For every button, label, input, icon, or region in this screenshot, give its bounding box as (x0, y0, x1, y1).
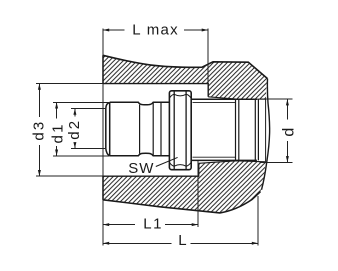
d2 arrows (73, 109, 76, 115)
svg-text:L max: L max (132, 22, 179, 39)
d1 extension lines (53, 102, 110, 156)
L1 arrows (103, 223, 109, 226)
plug body top edge with groove (110, 102, 170, 105)
L dimension line (103, 242, 258, 244)
SW leader line (156, 157, 178, 166)
d3 dimension line (38, 84, 40, 177)
hex corner edges (174, 91, 186, 170)
common extension line at block face (102, 29, 104, 246)
plug nose cap (106, 102, 110, 156)
d dimension line (286, 99, 288, 162)
groove edge left (139, 105, 141, 154)
d3 arrows (38, 84, 41, 90)
thread root lines (193, 102, 236, 157)
block upper section fill (103, 55, 268, 99)
dimension and extension lines (36, 29, 293, 246)
svg-text:SW: SW (128, 160, 154, 177)
block lower outline (103, 161, 266, 213)
L arrows (103, 242, 109, 245)
plug body bottom edge with groove (110, 153, 170, 156)
L1 right extension (197, 161, 199, 228)
groove edge right (152, 102, 154, 156)
svg-text:L: L (178, 232, 186, 249)
d1 dimension line (56, 102, 58, 155)
arrowheads (38, 29, 289, 245)
d1 arrows (55, 102, 58, 108)
d extension lines (260, 99, 293, 162)
d arrows (286, 99, 289, 105)
svg-text:d2: d2 (66, 119, 83, 140)
threaded shank outer lines (191, 99, 257, 160)
L max arrows (103, 29, 109, 32)
block lower section fill (103, 161, 266, 213)
d2 extension lines (71, 109, 106, 149)
L1 dimension line (103, 224, 198, 226)
d3 extension lines (36, 84, 103, 177)
svg-text:L1: L1 (143, 216, 163, 233)
collar edge (160, 102, 162, 156)
thread end rings (236, 99, 239, 160)
d2 dimension line (74, 109, 76, 149)
hex nut outline (169, 91, 191, 170)
svg-text:d: d (281, 128, 298, 137)
shank end face rings (255, 99, 258, 160)
svg-text:d3: d3 (31, 120, 48, 141)
svg-text:d1: d1 (50, 122, 67, 143)
block upper outline (103, 55, 268, 99)
hex chamfer arcs (170, 94, 191, 166)
L max dimension line (103, 29, 208, 31)
block right broken edge (262, 79, 270, 190)
female thread bore end face (265, 99, 267, 162)
L right extension (257, 196, 259, 245)
L max right extension (207, 29, 209, 84)
